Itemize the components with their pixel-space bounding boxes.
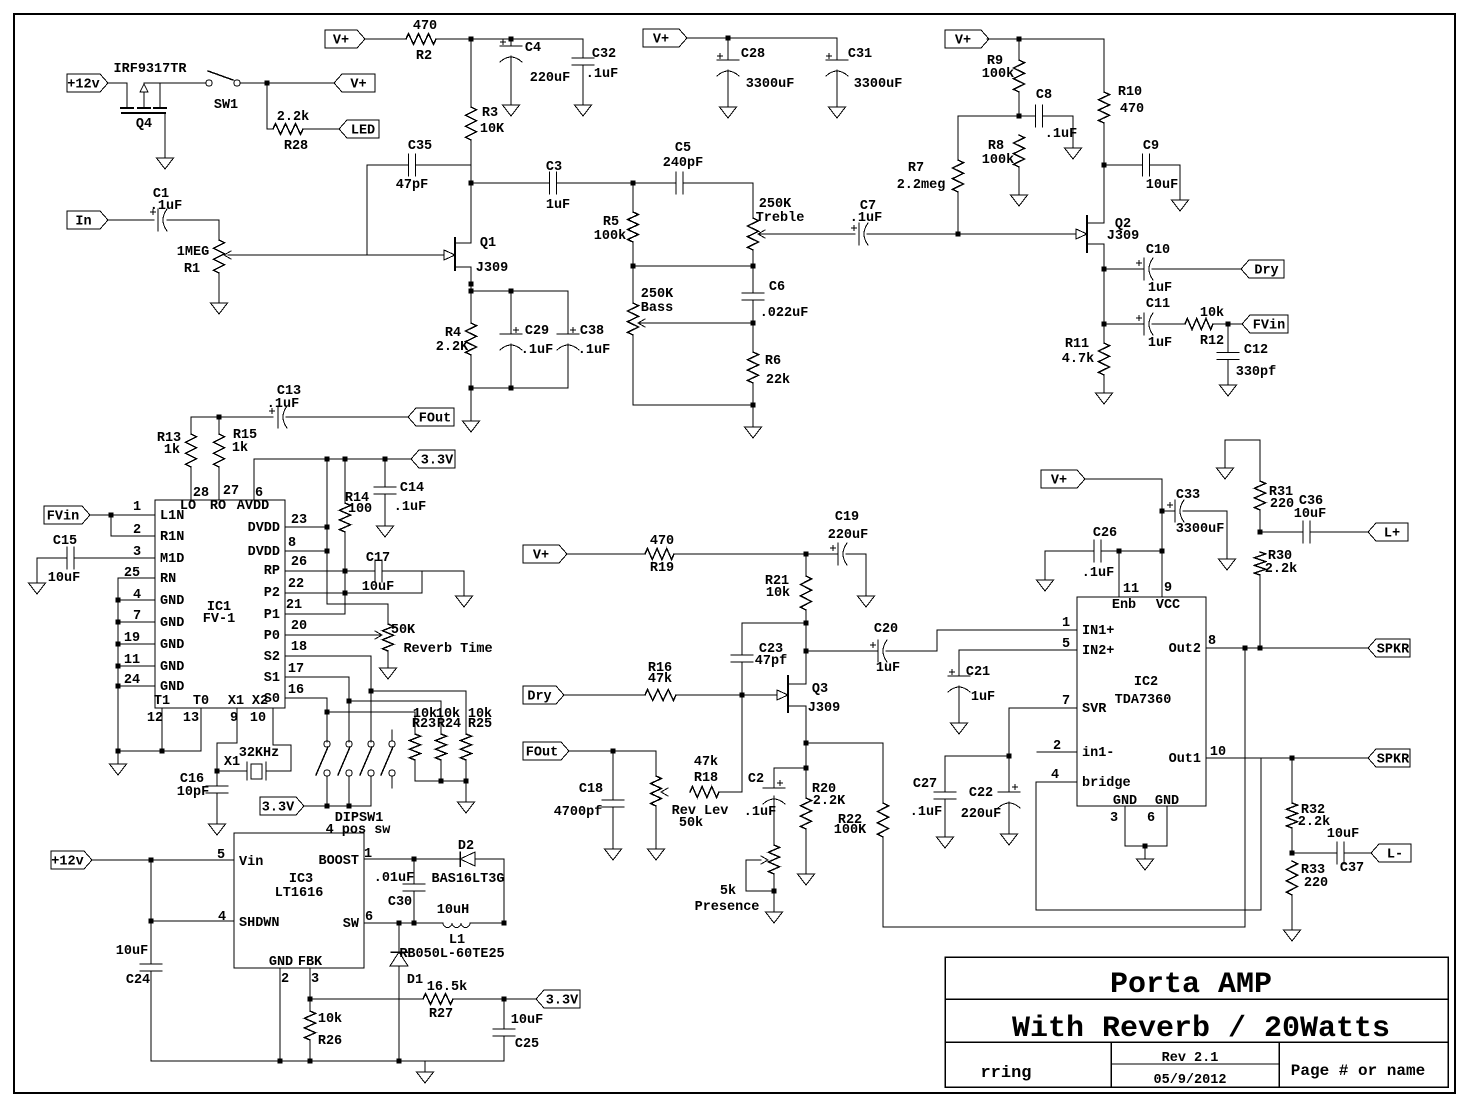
junction DVDD pin8 — [325, 549, 330, 554]
svg-text:P2: P2 — [264, 586, 280, 601]
resistor R24 10k — [436, 707, 462, 760]
junction C6 bottom — [751, 321, 756, 326]
junction C11 left — [1102, 322, 1107, 327]
svg-text:D1: D1 — [407, 973, 423, 988]
svg-text:26: 26 — [291, 555, 307, 570]
wire pin4 stub — [118, 599, 155, 601]
svg-text:M1D: M1D — [160, 552, 184, 567]
svg-text:R6: R6 — [765, 354, 781, 369]
wire to ground FOut node — [470, 388, 472, 421]
net flag V+ (R19) — [523, 545, 567, 564]
wire +12v to Q4 source — [108, 83, 127, 108]
resistor R26 10k — [305, 999, 343, 1061]
capacitor C23 47pf — [731, 642, 787, 669]
capacitor C21 1uF — [948, 665, 995, 705]
junction 3.3V out — [502, 997, 507, 1002]
svg-text:20: 20 — [291, 619, 307, 634]
svg-text:10uF: 10uF — [48, 571, 80, 586]
svg-text:in1-: in1- — [1082, 746, 1114, 761]
junction C20 tap — [804, 649, 809, 654]
svg-text:C32: C32 — [592, 47, 616, 62]
svg-text:P0: P0 — [264, 629, 280, 644]
junction R5 top — [631, 181, 636, 186]
capacitor C7 .1uF — [850, 199, 882, 245]
svg-text:2.2k: 2.2k — [277, 110, 309, 125]
net flag L- — [1371, 844, 1411, 863]
wire switch to V+ node — [240, 82, 334, 84]
net flag V+ (C28) — [643, 29, 687, 48]
wire bus to ground — [117, 751, 119, 764]
pin numbers IC1 bottom — [147, 711, 266, 726]
wire P0 to pot — [285, 634, 381, 636]
wire pin2 jog — [111, 515, 155, 536]
svg-text:10pF: 10pF — [177, 785, 209, 800]
junction Out1/R32 — [1290, 756, 1295, 761]
wire Q2 source down — [1103, 244, 1105, 343]
junction R6 bottom — [751, 403, 756, 408]
wire FBK stub — [309, 968, 311, 999]
svg-text:47pF: 47pF — [396, 178, 428, 193]
capacitor C30 .01uF — [374, 859, 425, 923]
svg-text:AVDD: AVDD — [237, 499, 269, 514]
capacitor C16 10pF — [177, 771, 228, 824]
wire D2 to SW node — [475, 859, 504, 923]
ground R11 — [1096, 393, 1113, 404]
junction C16/X1 — [215, 769, 220, 774]
wire C20 left — [806, 650, 878, 652]
wire P1 jog — [285, 593, 345, 614]
wire AVDD to 3.3V rail — [254, 459, 411, 500]
svg-text:47pf: 47pf — [755, 654, 787, 669]
svg-text:470: 470 — [650, 534, 674, 549]
svg-text:V+: V+ — [533, 549, 549, 564]
wire R31 gnd elbow — [1225, 440, 1260, 481]
switch DIPSW1 pos 1 — [316, 741, 330, 806]
wire X1 jog — [217, 708, 237, 771]
svg-text:Out1: Out1 — [1169, 752, 1201, 767]
ground C27 — [937, 837, 954, 848]
junction DVDD rail — [325, 457, 330, 462]
wire SW line — [364, 922, 443, 924]
svg-text:Treble: Treble — [756, 211, 805, 226]
wire GND join — [1125, 845, 1167, 847]
wire Q4 drain to ground — [164, 113, 166, 158]
junction R7 bottom — [956, 232, 961, 237]
capacitor C13 .1uF — [267, 384, 301, 428]
svg-text:C31: C31 — [848, 47, 872, 62]
wire FBK to R27 — [310, 998, 423, 1000]
pin numbers IC1 top — [193, 484, 263, 501]
resistor R25 10k — [461, 707, 493, 760]
junction RP/R14 — [343, 569, 348, 574]
resistor R21 10k — [765, 554, 812, 610]
resistor R18 47k — [690, 787, 719, 798]
svg-text:BAS16LT3G: BAS16LT3G — [432, 872, 505, 887]
wire 3.3V to dip — [304, 805, 371, 807]
svg-text:J309: J309 — [476, 261, 508, 276]
ground R33 — [1284, 930, 1301, 941]
resistor R10 470 — [1099, 39, 1145, 165]
svg-text:10k: 10k — [318, 1012, 342, 1027]
wire T1 stub — [161, 708, 163, 751]
svg-text:220uF: 220uF — [530, 71, 571, 86]
svg-text:X2: X2 — [252, 694, 268, 709]
svg-text:C4: C4 — [525, 41, 541, 56]
svg-text:3.3V: 3.3V — [546, 994, 579, 1009]
diode D1 RB050L-60TE25 — [390, 923, 505, 1061]
wire C21 to ground — [958, 686, 960, 723]
svg-text:16: 16 — [288, 683, 304, 698]
svg-text:Out2: Out2 — [1169, 642, 1201, 657]
junction SVR/C22 — [1007, 754, 1012, 759]
svg-text:2: 2 — [281, 972, 289, 987]
svg-text:470: 470 — [413, 19, 437, 34]
svg-text:With Reverb / 20Watts: With Reverb / 20Watts — [1012, 1012, 1390, 1046]
svg-text:C8: C8 — [1036, 88, 1052, 103]
svg-text:C14: C14 — [400, 481, 424, 496]
svg-text:C24: C24 — [126, 973, 150, 988]
wire treble bottom — [752, 250, 754, 266]
junction R4 bottom — [469, 386, 474, 391]
ground C19 — [858, 596, 875, 607]
resistor R11 4.7k — [1062, 337, 1110, 393]
svg-text:18: 18 — [291, 640, 307, 655]
svg-text:Q1: Q1 — [480, 236, 496, 251]
svg-text:8: 8 — [1208, 634, 1216, 649]
wire pin19 stub — [118, 643, 155, 645]
wire R5 to C6 node — [633, 265, 753, 267]
svg-text:100: 100 — [348, 502, 372, 517]
wire pin23 stub — [285, 526, 327, 528]
junction bus D1 — [397, 1059, 402, 1064]
svg-text:C19: C19 — [835, 510, 859, 525]
svg-text:4 pos sw: 4 pos sw — [326, 823, 392, 838]
svg-text:C28: C28 — [741, 47, 765, 62]
wire R1 to ground — [218, 273, 220, 303]
svg-text:4.7k: 4.7k — [1062, 352, 1094, 367]
resistor R14 100 — [340, 459, 373, 593]
svg-text:GND: GND — [160, 594, 184, 609]
svg-text:R25: R25 — [468, 717, 492, 732]
svg-text:C12: C12 — [1244, 343, 1268, 358]
ground C31 — [829, 107, 846, 118]
switch DIPSW1 pos 4 — [381, 730, 395, 788]
capacitor C6 .022uF — [742, 266, 808, 323]
capacitor C5 240pF — [663, 141, 704, 194]
junction bus bottom — [116, 749, 121, 754]
wire GND pin3 — [1124, 806, 1126, 846]
wire V+ to R10 — [987, 38, 1104, 40]
svg-text:Reverb Time: Reverb Time — [403, 642, 492, 657]
title text Porta AMP — [1110, 968, 1272, 1002]
junction C29 top — [509, 289, 514, 294]
svg-text:.1uF: .1uF — [1082, 566, 1114, 581]
svg-text:Dry: Dry — [1254, 264, 1278, 279]
capacitor C4 220uF — [500, 39, 570, 105]
svg-text:.1uF: .1uF — [394, 500, 426, 515]
svg-text:C3: C3 — [546, 160, 562, 175]
svg-text:22: 22 — [288, 577, 304, 592]
svg-text:SHDWN: SHDWN — [239, 916, 280, 931]
junction R5 bottom — [631, 264, 636, 269]
svg-text:220uF: 220uF — [828, 528, 869, 543]
net flag V+ (TDA) — [1041, 470, 1085, 489]
junction C10 left — [1102, 267, 1107, 272]
svg-text:R11: R11 — [1065, 337, 1089, 352]
wire C15 to pin3 — [74, 557, 155, 559]
net flag FOut (from FV-1) — [408, 408, 454, 427]
svg-text:.1uF: .1uF — [267, 397, 299, 412]
wire R2 to C32 rail — [436, 38, 583, 40]
capacitor C15 10uF — [48, 534, 80, 586]
junction gnd24 — [116, 684, 121, 689]
svg-text:+12v: +12v — [67, 78, 99, 93]
svg-text:T1: T1 — [154, 694, 170, 709]
capacitor C12 330pf — [1217, 324, 1276, 385]
wire T0 stub — [200, 708, 202, 751]
svg-text:V+: V+ — [350, 78, 366, 93]
net flag V+ (switch) — [334, 74, 375, 93]
junction C9 left — [1102, 163, 1107, 168]
svg-text:FVin: FVin — [1253, 319, 1285, 334]
svg-text:220: 220 — [1270, 497, 1294, 512]
svg-text:5: 5 — [217, 848, 225, 863]
net flag 3.3V (out) — [536, 990, 580, 1009]
wire V+ rail to C31 — [687, 37, 837, 39]
svg-text:R10: R10 — [1118, 85, 1142, 100]
junction SHDWN — [149, 919, 154, 924]
capacitor C28 3300uF — [717, 38, 794, 107]
svg-text:RO: RO — [210, 499, 226, 514]
junction presence bottom — [772, 889, 777, 894]
svg-text:D2: D2 — [458, 839, 474, 854]
pin numbers IC3 — [217, 847, 373, 987]
svg-text:L+: L+ — [1384, 527, 1400, 542]
svg-text:S2: S2 — [264, 650, 280, 665]
wire C9 to ground — [1150, 165, 1180, 200]
title block box — [945, 957, 1448, 1087]
title text page — [1291, 1062, 1425, 1080]
svg-text:C22: C22 — [969, 786, 993, 801]
capacitor C36 10uF — [1294, 494, 1326, 543]
svg-text:240pF: 240pF — [663, 156, 704, 171]
wire S1 to R24 — [349, 701, 441, 734]
svg-text:23: 23 — [291, 513, 307, 528]
svg-text:2.2meg: 2.2meg — [897, 178, 946, 193]
svg-text:Presence: Presence — [695, 900, 760, 915]
capacitor C20 1uF — [871, 622, 901, 676]
ground C28 — [720, 107, 737, 118]
junction P1/P2/R14 — [343, 591, 348, 596]
svg-text:C37: C37 — [1340, 861, 1364, 876]
svg-text:J309: J309 — [808, 701, 840, 716]
svg-text:50k: 50k — [679, 816, 703, 831]
svg-text:R7: R7 — [908, 161, 924, 176]
svg-text:IN2+: IN2+ — [1082, 644, 1114, 659]
svg-text:27: 27 — [223, 484, 239, 499]
capacitor C14 .1uF — [374, 459, 426, 526]
ground C17 — [456, 596, 473, 607]
svg-text:IN1+: IN1+ — [1082, 624, 1114, 639]
junction VCC/C26 — [1160, 549, 1165, 554]
svg-text:L1: L1 — [449, 933, 465, 948]
wire R12 to FVin flag — [1213, 323, 1242, 325]
resistor R19 470 — [645, 534, 674, 576]
junction R25 bottom — [464, 779, 469, 784]
svg-text:28: 28 — [193, 486, 209, 501]
junction pin1/pin2 — [109, 513, 114, 518]
capacitor C26 .1uF — [1082, 526, 1117, 581]
wire R6 node to ground — [752, 405, 754, 427]
resistor R22 100K — [806, 650, 1245, 927]
wire bottom rail — [471, 387, 568, 389]
wire Q1 drain vertical — [470, 140, 472, 243]
svg-text:R1: R1 — [184, 262, 200, 277]
resistor R3 10K — [466, 39, 506, 140]
junction S1 — [347, 699, 352, 704]
wire pin8 stub — [285, 550, 327, 552]
wire bottom bus — [151, 1060, 504, 1062]
wire RP to C17 — [285, 570, 375, 572]
net flag SPKR (out1) — [1368, 749, 1410, 768]
svg-text:DVDD: DVDD — [248, 545, 280, 560]
svg-text:3: 3 — [1110, 811, 1118, 826]
wire L1 to C25 node — [470, 922, 504, 924]
svg-text:SPKR: SPKR — [1377, 643, 1410, 658]
svg-text:1k: 1k — [232, 441, 248, 456]
svg-text:22k: 22k — [766, 373, 790, 388]
title text date — [1154, 1073, 1227, 1088]
wire R19 to C19 — [674, 553, 838, 555]
svg-text:R3: R3 — [482, 106, 498, 121]
wire BOOST to D2 — [364, 858, 460, 860]
wire C8 to ground — [1043, 116, 1073, 148]
svg-text:V+: V+ — [955, 34, 971, 49]
capacitor C29 .1uF — [500, 291, 553, 388]
svg-text:8: 8 — [288, 536, 296, 551]
inductor L1 10uH — [437, 903, 470, 948]
svg-text:bridge: bridge — [1082, 776, 1131, 791]
wire S2 to R25 — [371, 691, 466, 734]
capacitor C31 3300uF — [826, 38, 902, 107]
svg-text:VCC: VCC — [1156, 598, 1180, 613]
wire presence to ground — [773, 874, 775, 912]
junction gnd19 — [116, 642, 121, 647]
svg-text:TDA7360: TDA7360 — [1115, 693, 1172, 708]
svg-text:GND: GND — [160, 638, 184, 653]
ground RevLev — [648, 849, 665, 860]
wire C19 to ground — [846, 554, 866, 596]
wire C26 right — [1101, 550, 1162, 552]
svg-text:220: 220 — [1304, 876, 1328, 891]
wire S2 route — [285, 656, 371, 742]
junction C4 top — [509, 37, 514, 42]
svg-text:250K: 250K — [759, 197, 792, 212]
net flag Dry (out) — [1241, 260, 1284, 279]
wire pin25 stub — [118, 577, 155, 579]
svg-text:32KHz: 32KHz — [239, 746, 280, 761]
svg-text:25: 25 — [124, 566, 140, 581]
junction V+ node — [265, 81, 270, 86]
wire C10 left — [1104, 268, 1144, 270]
svg-text:1uF: 1uF — [1148, 336, 1172, 351]
wire R7 to C8 line — [958, 115, 1035, 117]
svg-text:Q4: Q4 — [136, 117, 152, 132]
svg-text:C5: C5 — [675, 141, 691, 156]
wire V+ to R2 — [365, 38, 406, 40]
ground R20 — [798, 874, 815, 885]
junction R3 top — [469, 37, 474, 42]
net flag 3.3V (rail) — [411, 450, 455, 469]
wire source to C38 top rail — [471, 290, 568, 292]
capacitor C35 47pF — [396, 139, 432, 193]
ground LT1616 — [417, 1072, 434, 1083]
junction IC2 gnd — [1143, 844, 1148, 849]
wire C1 to R1 top — [167, 220, 219, 240]
wire SVR route — [1009, 708, 1077, 756]
wire C22 top — [1008, 756, 1010, 792]
capacitor C27 .1uF — [910, 777, 956, 820]
svg-text:13: 13 — [183, 711, 199, 726]
svg-text:9: 9 — [1164, 581, 1172, 596]
net flag FVin (out) — [1242, 315, 1288, 334]
svg-text:C9: C9 — [1143, 139, 1159, 154]
ground R23-25 — [458, 802, 475, 813]
title text Rev 2.1 — [1162, 1051, 1219, 1066]
svg-text:6: 6 — [255, 486, 263, 501]
ground C8 — [1065, 148, 1082, 159]
svg-text:.1uF: .1uF — [578, 343, 610, 358]
svg-text:10uH: 10uH — [437, 903, 469, 918]
wire R18 to C23 node — [719, 791, 742, 793]
net flag SPKR (out2) — [1368, 639, 1410, 658]
ground C14 — [377, 526, 394, 537]
svg-text:1uF: 1uF — [876, 661, 900, 676]
net flag FOut (in) — [523, 742, 569, 761]
wire R25 bottom — [465, 760, 467, 781]
svg-text:Vin: Vin — [239, 855, 263, 870]
junction treble bottom — [751, 264, 756, 269]
svg-text:L-: L- — [1387, 848, 1403, 863]
junction gnd4 — [116, 598, 121, 603]
wire Q1 source vertical — [470, 267, 472, 323]
wire C5 to treble — [683, 183, 753, 218]
junction S0 — [325, 710, 330, 715]
svg-text:In: In — [75, 215, 91, 230]
capacitor C18 4700pf — [554, 751, 624, 849]
junction DVDD pin23 — [325, 525, 330, 530]
junction C37 left — [1290, 851, 1295, 856]
IC U2 TDA7360 box — [1077, 597, 1206, 809]
svg-text:RB050L-60TE25: RB050L-60TE25 — [399, 947, 504, 962]
wire R bottom rail — [415, 780, 466, 782]
ground R6 — [745, 427, 762, 438]
svg-text:10uF: 10uF — [1146, 178, 1178, 193]
junction C23 top — [804, 621, 809, 626]
wire bridge return — [1036, 758, 1261, 910]
svg-text:Rev 2.1: Rev 2.1 — [1162, 1051, 1219, 1066]
svg-text:12: 12 — [147, 711, 163, 726]
potentiometer R1 1MEG — [177, 240, 231, 277]
net flag FVin (in) — [44, 506, 90, 525]
wire C11 to R12 — [1152, 323, 1185, 325]
capacitor C37 10uF — [1327, 827, 1364, 876]
svg-text:C11: C11 — [1146, 297, 1170, 312]
svg-text:V+: V+ — [333, 34, 349, 49]
wire C27 to ground — [944, 799, 946, 837]
svg-text:10K: 10K — [480, 122, 505, 137]
svg-text:FOut: FOut — [419, 412, 451, 427]
